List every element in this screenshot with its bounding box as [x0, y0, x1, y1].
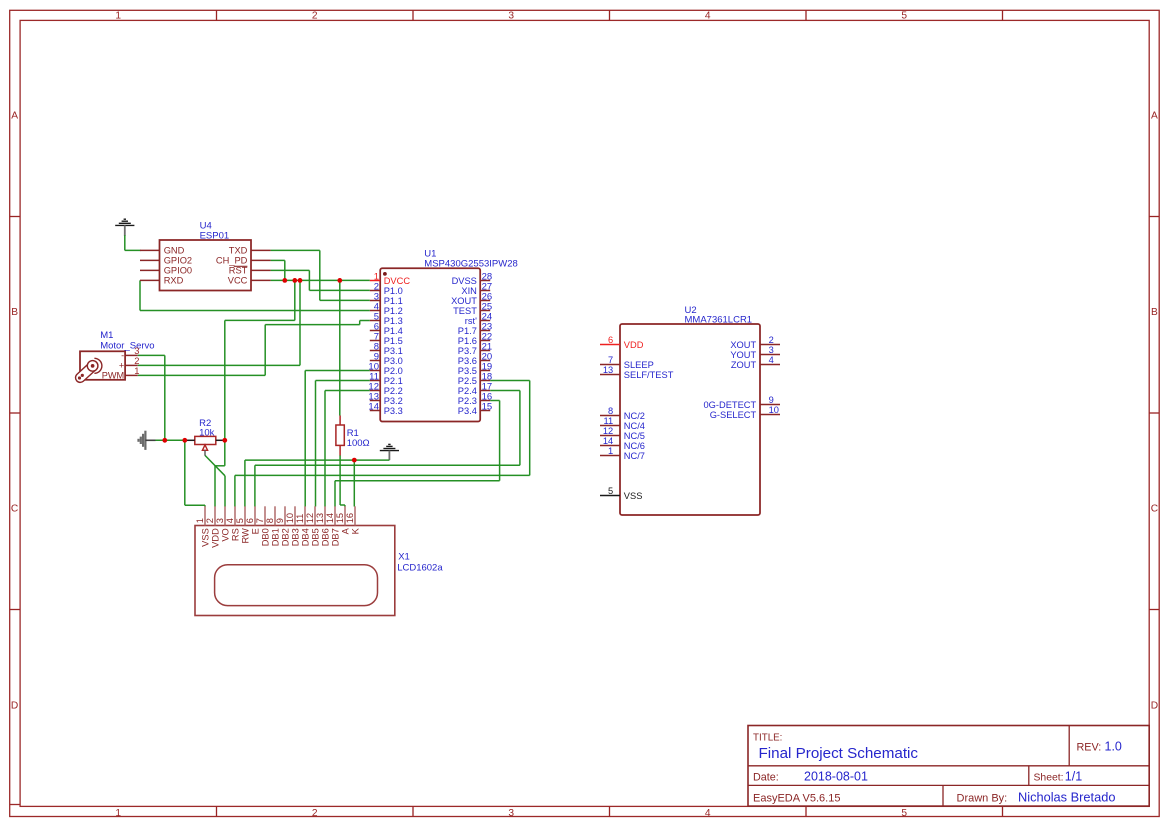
svg-text:P3.5: P3.5: [458, 366, 477, 376]
svg-text:P3.3: P3.3: [384, 406, 403, 416]
svg-text:100Ω: 100Ω: [347, 438, 370, 449]
wire GND bus RW R1-area: [245, 459, 390, 461]
X1 pin 13 (DB6): [324, 506, 326, 525]
svg-text:1: 1: [115, 10, 121, 21]
resistor R1 100ohm body: [336, 425, 344, 445]
svg-text:RXD: RXD: [164, 276, 184, 286]
svg-text:1: 1: [195, 518, 205, 523]
svg-text:DB5: DB5: [311, 528, 321, 546]
wire U4.CH_PD to VCC net: [271, 259, 285, 261]
svg-text:Sheet:: Sheet:: [1034, 773, 1064, 784]
X1 pin 15 (A): [344, 506, 346, 525]
svg-text:NC/2: NC/2: [624, 411, 645, 421]
svg-text:3: 3: [215, 518, 225, 523]
junction dot CH_PD/VCC: [282, 278, 287, 283]
svg-text:10: 10: [769, 405, 779, 415]
svg-text:Drawn By:: Drawn By:: [957, 792, 1008, 804]
svg-text:P3.2: P3.2: [384, 396, 403, 406]
svg-text:5: 5: [901, 808, 907, 819]
svg-text:3: 3: [508, 808, 514, 819]
svg-text:1: 1: [134, 365, 139, 376]
U1 pin 24 (rst'): [480, 320, 490, 322]
frame column ticks bottom: [216, 806, 218, 816]
X1 pin 1 (VSS): [204, 506, 206, 525]
svg-text:A: A: [11, 111, 18, 122]
wire VCC main U4.VCC to U1.DVCC: [271, 279, 370, 281]
svg-text:C: C: [1151, 504, 1158, 515]
svg-text:Motor_Servo: Motor_Servo: [100, 340, 154, 351]
U2 pin 6 (VDD): [600, 344, 620, 346]
U4 RST overline: [234, 265, 248, 267]
svg-text:B: B: [11, 307, 18, 318]
resistor R2 10k body: [195, 436, 216, 444]
svg-text:PWM: PWM: [102, 371, 124, 381]
svg-text:14: 14: [325, 513, 335, 523]
U2 pin 1 (NC/7): [600, 455, 620, 457]
U4 pin VCC: [251, 279, 271, 281]
U2 pin 3 (YOUT): [760, 354, 780, 356]
svg-text:3: 3: [769, 345, 774, 355]
X1 pin 3 (VO): [224, 506, 226, 525]
svg-text:P2.0: P2.0: [384, 366, 403, 376]
svg-text:1.0: 1.0: [1105, 740, 1122, 754]
svg-text:P1.0: P1.0: [384, 286, 403, 296]
U1 pin 23 (P1.7): [480, 330, 490, 332]
U1 pin 9 (P3.0): [370, 360, 380, 362]
svg-text:NC/5: NC/5: [624, 431, 645, 441]
wire GND ground to U4.GND: [124, 235, 126, 250]
U1 pin 2 (P1.0): [370, 290, 380, 292]
svg-text:XOUT: XOUT: [451, 296, 477, 306]
R2 wiper arrow: [202, 445, 207, 450]
svg-text:REV:: REV:: [1077, 742, 1102, 754]
svg-text:P2.1: P2.1: [384, 376, 403, 386]
U4 pin GND: [140, 249, 160, 251]
component M1 Motor_Servo body: [80, 351, 125, 380]
svg-text:3: 3: [508, 10, 514, 21]
U2 pin 5 (VSS): [600, 495, 620, 497]
svg-text:TXD: TXD: [229, 246, 248, 256]
svg-text:SLEEP: SLEEP: [624, 360, 654, 370]
U1 pin 26 (XOUT): [480, 300, 490, 302]
svg-text:A: A: [1151, 111, 1158, 122]
wire U1.P2.4 to LCD E pin6: [490, 390, 520, 392]
svg-text:D: D: [1151, 700, 1158, 711]
U1 pin 14 (P3.3): [370, 410, 380, 412]
svg-text:6: 6: [245, 518, 255, 523]
svg-text:0G-DETECT: 0G-DETECT: [704, 400, 757, 410]
svg-text:DVCC: DVCC: [384, 276, 411, 286]
svg-text:P3.6: P3.6: [458, 356, 477, 366]
svg-text:5: 5: [608, 486, 613, 496]
svg-text:15: 15: [335, 513, 345, 523]
svg-text:X1: X1: [398, 552, 410, 563]
svg-text:VDD: VDD: [624, 340, 644, 350]
wire U1.P2.3 to LCD DB7 pin14: [490, 400, 499, 402]
frame row ticks right: [1149, 216, 1159, 218]
U1 pin 25 (TEST): [480, 310, 490, 312]
title block outline: [748, 726, 1149, 807]
svg-text:P2.4: P2.4: [458, 386, 477, 396]
X1 pin 6 (E): [254, 506, 256, 525]
svg-text:VSS: VSS: [624, 491, 643, 501]
wire M1 pin3 to GND net: [138, 354, 165, 356]
IC U2 MMA7361LCR1 body: [620, 324, 760, 515]
svg-text:RST: RST: [229, 266, 248, 276]
frame row ticks left: [10, 216, 20, 218]
wire U1.P1.3 to M1 pin1 PWM net: [360, 320, 370, 322]
svg-text:7: 7: [255, 518, 265, 523]
svg-text:14: 14: [368, 401, 379, 412]
svg-text:2: 2: [769, 335, 774, 345]
svg-text:15: 15: [482, 401, 493, 412]
svg-text:DB1: DB1: [271, 528, 281, 546]
ground symbol right of R1: [380, 444, 399, 450]
wire R2 wiper to LCD VO pin3: [205, 455, 225, 475]
svg-text:EasyEDA V5.6.15: EasyEDA V5.6.15: [753, 792, 840, 804]
U1 pin 20 (P3.6): [480, 360, 490, 362]
U1 pin 22 (P1.6): [480, 340, 490, 342]
U4 pin CH_PD: [251, 259, 271, 261]
X1 pin 4 (RS): [234, 506, 236, 525]
svg-text:6: 6: [608, 335, 613, 345]
X1 pin 11 (DB4): [304, 506, 306, 525]
wire LCD RW pin5 to GND bus: [244, 460, 246, 506]
svg-text:5: 5: [901, 10, 907, 21]
svg-text:DB4: DB4: [301, 528, 311, 546]
svg-text:5: 5: [235, 518, 245, 523]
wire U1.P2.1 to LCD DB5 pin12: [316, 380, 370, 382]
svg-text:LCD1602a: LCD1602a: [397, 562, 443, 573]
svg-text:C: C: [11, 504, 18, 515]
wire GND run at R2 left: [155, 439, 184, 441]
svg-text:D: D: [11, 700, 18, 711]
svg-text:P3.4: P3.4: [458, 406, 477, 416]
svg-text:7: 7: [608, 355, 613, 365]
M1 pin 2 (+): [125, 364, 138, 366]
R2 left lead: [185, 439, 195, 441]
U2 pin 4 (ZOUT): [760, 364, 780, 366]
junction dot VCC branch R2: [292, 278, 297, 283]
svg-text:-: -: [121, 351, 124, 361]
wire U1.P2.0 to LCD DB4 pin11: [305, 370, 370, 372]
title block REV divider: [1068, 726, 1070, 766]
title block row divider 2: [748, 784, 1149, 786]
U2 pin 11 (NC/4): [600, 425, 620, 427]
svg-text:CH_PD: CH_PD: [216, 256, 248, 266]
svg-text:VSS: VSS: [201, 528, 211, 547]
frame corner step bottom-left: [10, 804, 20, 806]
svg-text:DB6: DB6: [321, 528, 331, 546]
wire U4.RXD to U1.P1.2 net: [139, 280, 141, 310]
svg-text:+: +: [119, 361, 124, 371]
svg-text:MSP430G2553IPW28: MSP430G2553IPW28: [424, 258, 517, 269]
svg-text:RS: RS: [231, 528, 241, 541]
svg-text:9: 9: [769, 395, 774, 405]
svg-text:rst': rst': [465, 316, 477, 326]
svg-text:P3.7: P3.7: [458, 346, 477, 356]
U1 pin 12 (P2.2): [370, 390, 380, 392]
junction dot R2 right terminal: [222, 438, 227, 443]
svg-text:P2.2: P2.2: [384, 386, 403, 396]
wire U4.RST to U1.P1.0 net: [271, 269, 310, 271]
wire LCD K pin16 to GND bus: [353, 460, 355, 506]
svg-text:RW: RW: [241, 528, 251, 544]
svg-text:Final Project Schematic: Final Project Schematic: [759, 745, 919, 762]
svg-text:2: 2: [312, 808, 318, 819]
svg-text:1/1: 1/1: [1065, 770, 1082, 784]
U4 pin TXD: [251, 249, 271, 251]
svg-text:DB0: DB0: [261, 528, 271, 546]
U2 pin 9 (0G-DETECT): [760, 404, 780, 406]
svg-text:VO: VO: [221, 528, 231, 541]
wire R1 bottom to LCD A pin15: [339, 455, 341, 505]
svg-text:P3.0: P3.0: [384, 356, 403, 366]
U2 pin 2 (XOUT): [760, 344, 780, 346]
wire VCC branch to M1 pin2: [299, 280, 301, 365]
svg-text:4: 4: [705, 10, 711, 21]
svg-text:13: 13: [603, 365, 613, 375]
junction dot GND bus LCD K: [352, 458, 357, 463]
svg-text:12: 12: [305, 513, 315, 523]
svg-text:A: A: [341, 527, 351, 534]
U1 pin 28 (DVSS): [480, 280, 490, 282]
M1 pin 3 (-): [125, 354, 138, 356]
svg-text:13: 13: [315, 513, 325, 523]
junction dot GND servo branch: [162, 438, 167, 443]
U2 pin 8 (NC/2): [600, 415, 620, 417]
U1 pin 6 (P1.4): [370, 330, 380, 332]
U1 pin 21 (P3.7): [480, 350, 490, 352]
IC U4 ESP01 body: [160, 240, 252, 291]
svg-text:4: 4: [225, 518, 235, 523]
X1 pin 5 (RW): [244, 506, 246, 525]
svg-text:P1.4: P1.4: [384, 326, 403, 336]
connector X1 LCD1602a body: [195, 526, 395, 616]
svg-text:4: 4: [769, 355, 774, 365]
U4 pin RXD: [140, 279, 160, 281]
svg-text:B: B: [1151, 307, 1158, 318]
wire VCC branch to R2 right terminal: [294, 280, 296, 320]
U1 pin 4 (P1.2): [370, 310, 380, 312]
svg-text:Nicholas Bretado: Nicholas Bretado: [1018, 789, 1115, 804]
svg-text:Date:: Date:: [753, 772, 779, 784]
IC U1 MSP430G2553IPW28 body: [380, 268, 480, 421]
X1 LCD screen rounded rect: [215, 565, 378, 606]
svg-text:GPIO2: GPIO2: [164, 256, 192, 266]
U1 pin 13 (P3.2): [370, 400, 380, 402]
U1 pin 27 (XIN): [480, 290, 490, 292]
svg-text:1: 1: [608, 446, 613, 456]
svg-text:P3.1: P3.1: [384, 346, 403, 356]
X1 pin 7 (DB0): [264, 506, 266, 525]
wire VCC branch to R1 top: [339, 280, 341, 415]
svg-text:P1.7: P1.7: [458, 326, 477, 336]
wire GND to LCD VSS pin1: [184, 440, 186, 505]
U4 pin GPIO2: [140, 259, 160, 261]
svg-text:2: 2: [205, 518, 215, 523]
U1 pin 19 (P3.5): [480, 370, 490, 372]
X1 pin 14 (DB7): [334, 506, 336, 525]
title block Sheet divider: [1028, 766, 1030, 786]
svg-text:DVSS: DVSS: [452, 276, 477, 286]
svg-text:P1.1: P1.1: [384, 296, 403, 306]
svg-text:1: 1: [115, 808, 121, 819]
U1 pin 10 (P2.0): [370, 370, 380, 372]
svg-text:4: 4: [705, 808, 711, 819]
svg-text:8: 8: [608, 406, 613, 416]
svg-text:P1.2: P1.2: [384, 306, 403, 316]
svg-text:8: 8: [265, 518, 275, 523]
svg-text:GND: GND: [164, 246, 185, 256]
U1 pin 3 (P1.1): [370, 300, 380, 302]
svg-text:16: 16: [345, 513, 355, 523]
X1 pin 12 (DB5): [314, 506, 316, 525]
svg-text:GPIO0: GPIO0: [164, 266, 192, 276]
U1 pin 8 (P3.1): [370, 350, 380, 352]
wire R2 right to LCD VDD pin2: [224, 440, 226, 466]
svg-text:MMA7361LCR1: MMA7361LCR1: [685, 315, 753, 326]
U1 pin 7 (P1.5): [370, 340, 380, 342]
svg-text:K: K: [351, 527, 361, 534]
svg-text:P1.5: P1.5: [384, 336, 403, 346]
U1 pin 16 (P2.3): [480, 400, 490, 402]
svg-text:P2.5: P2.5: [458, 376, 477, 386]
svg-text:TITLE:: TITLE:: [753, 733, 782, 744]
title block row divider 1: [748, 765, 1149, 767]
X1 pin 10 (DB3): [294, 506, 296, 525]
junction dot VCC branch R1: [337, 278, 342, 283]
U1 pin 15 (P3.4): [480, 410, 490, 412]
svg-text:11: 11: [295, 514, 305, 524]
U4 pin RST: [251, 269, 271, 271]
wire U4.TXD to U1.P1.1 net: [271, 249, 320, 251]
svg-text:DB7: DB7: [331, 528, 341, 546]
junction dot GND LCD VSS branch: [182, 438, 187, 443]
svg-text:12: 12: [603, 426, 613, 436]
svg-text:NC/4: NC/4: [624, 421, 645, 431]
svg-text:ZOUT: ZOUT: [731, 360, 757, 370]
svg-text:VDD: VDD: [211, 528, 221, 548]
svg-text:XIN: XIN: [461, 286, 477, 296]
wire U1.P2.2 to LCD DB6 pin13: [325, 390, 370, 392]
svg-text:NC/6: NC/6: [624, 441, 645, 451]
ground symbol left of R2: [139, 431, 146, 450]
U1 pin 17 (P2.4): [480, 390, 490, 392]
U1 pin1 orientation dot: [383, 272, 387, 276]
X1 pin 2 (VDD): [214, 506, 216, 525]
svg-text:P1.6: P1.6: [458, 336, 477, 346]
wire U1.P2.5 to LCD RS pin4: [490, 380, 530, 382]
U2 pin 13 (SELF/TEST): [600, 374, 620, 376]
U1 pin 18 (P2.5): [480, 380, 490, 382]
svg-text:P1.3: P1.3: [384, 316, 403, 326]
U2 pin 7 (SLEEP): [600, 364, 620, 366]
U2 pin 14 (NC/6): [600, 445, 620, 447]
U2 pin 10 (G-SELECT): [760, 414, 780, 416]
svg-text:VCC: VCC: [228, 276, 248, 286]
svg-text:G-SELECT: G-SELECT: [710, 410, 757, 420]
title block DrawnBy divider: [942, 785, 944, 806]
U1 pin 1 (DVCC): [370, 280, 380, 282]
M1 pin 1 (PWM): [125, 374, 138, 376]
svg-text:10k: 10k: [199, 427, 215, 438]
R1 bottom lead: [339, 445, 341, 455]
svg-text:SELF/TEST: SELF/TEST: [624, 370, 674, 380]
ground symbol near U4: [115, 219, 134, 225]
U1 pin 5 (P1.3): [370, 320, 380, 322]
junction dot VCC branch servo: [298, 278, 303, 283]
svg-text:NC/7: NC/7: [624, 451, 645, 461]
svg-text:ESP01: ESP01: [200, 231, 230, 242]
X1 pin 9 (DB2): [284, 506, 286, 525]
R2 right lead: [216, 439, 225, 441]
svg-text:P2.3: P2.3: [458, 396, 477, 406]
U1 pin 11 (P2.1): [370, 380, 380, 382]
R1 top lead: [339, 416, 341, 426]
X1 pin 8 (DB1): [274, 506, 276, 525]
svg-text:2018-08-01: 2018-08-01: [804, 770, 868, 784]
svg-text:YOUT: YOUT: [730, 350, 756, 360]
frame column ticks top: [216, 10, 218, 20]
X1 pin 16 (K): [354, 506, 356, 525]
svg-text:DB2: DB2: [281, 528, 291, 546]
svg-text:DB3: DB3: [291, 528, 301, 546]
svg-text:TEST: TEST: [453, 306, 477, 316]
U4 pin GPIO0: [140, 269, 160, 271]
svg-text:14: 14: [603, 436, 613, 446]
svg-text:XOUT: XOUT: [730, 340, 756, 350]
M1 servo horn icon: [74, 358, 102, 384]
svg-text:2: 2: [312, 10, 318, 21]
svg-text:E: E: [251, 528, 261, 534]
svg-text:11: 11: [604, 416, 614, 426]
svg-text:9: 9: [275, 518, 285, 523]
U2 pin 12 (NC/5): [600, 435, 620, 437]
svg-text:10: 10: [285, 513, 295, 523]
